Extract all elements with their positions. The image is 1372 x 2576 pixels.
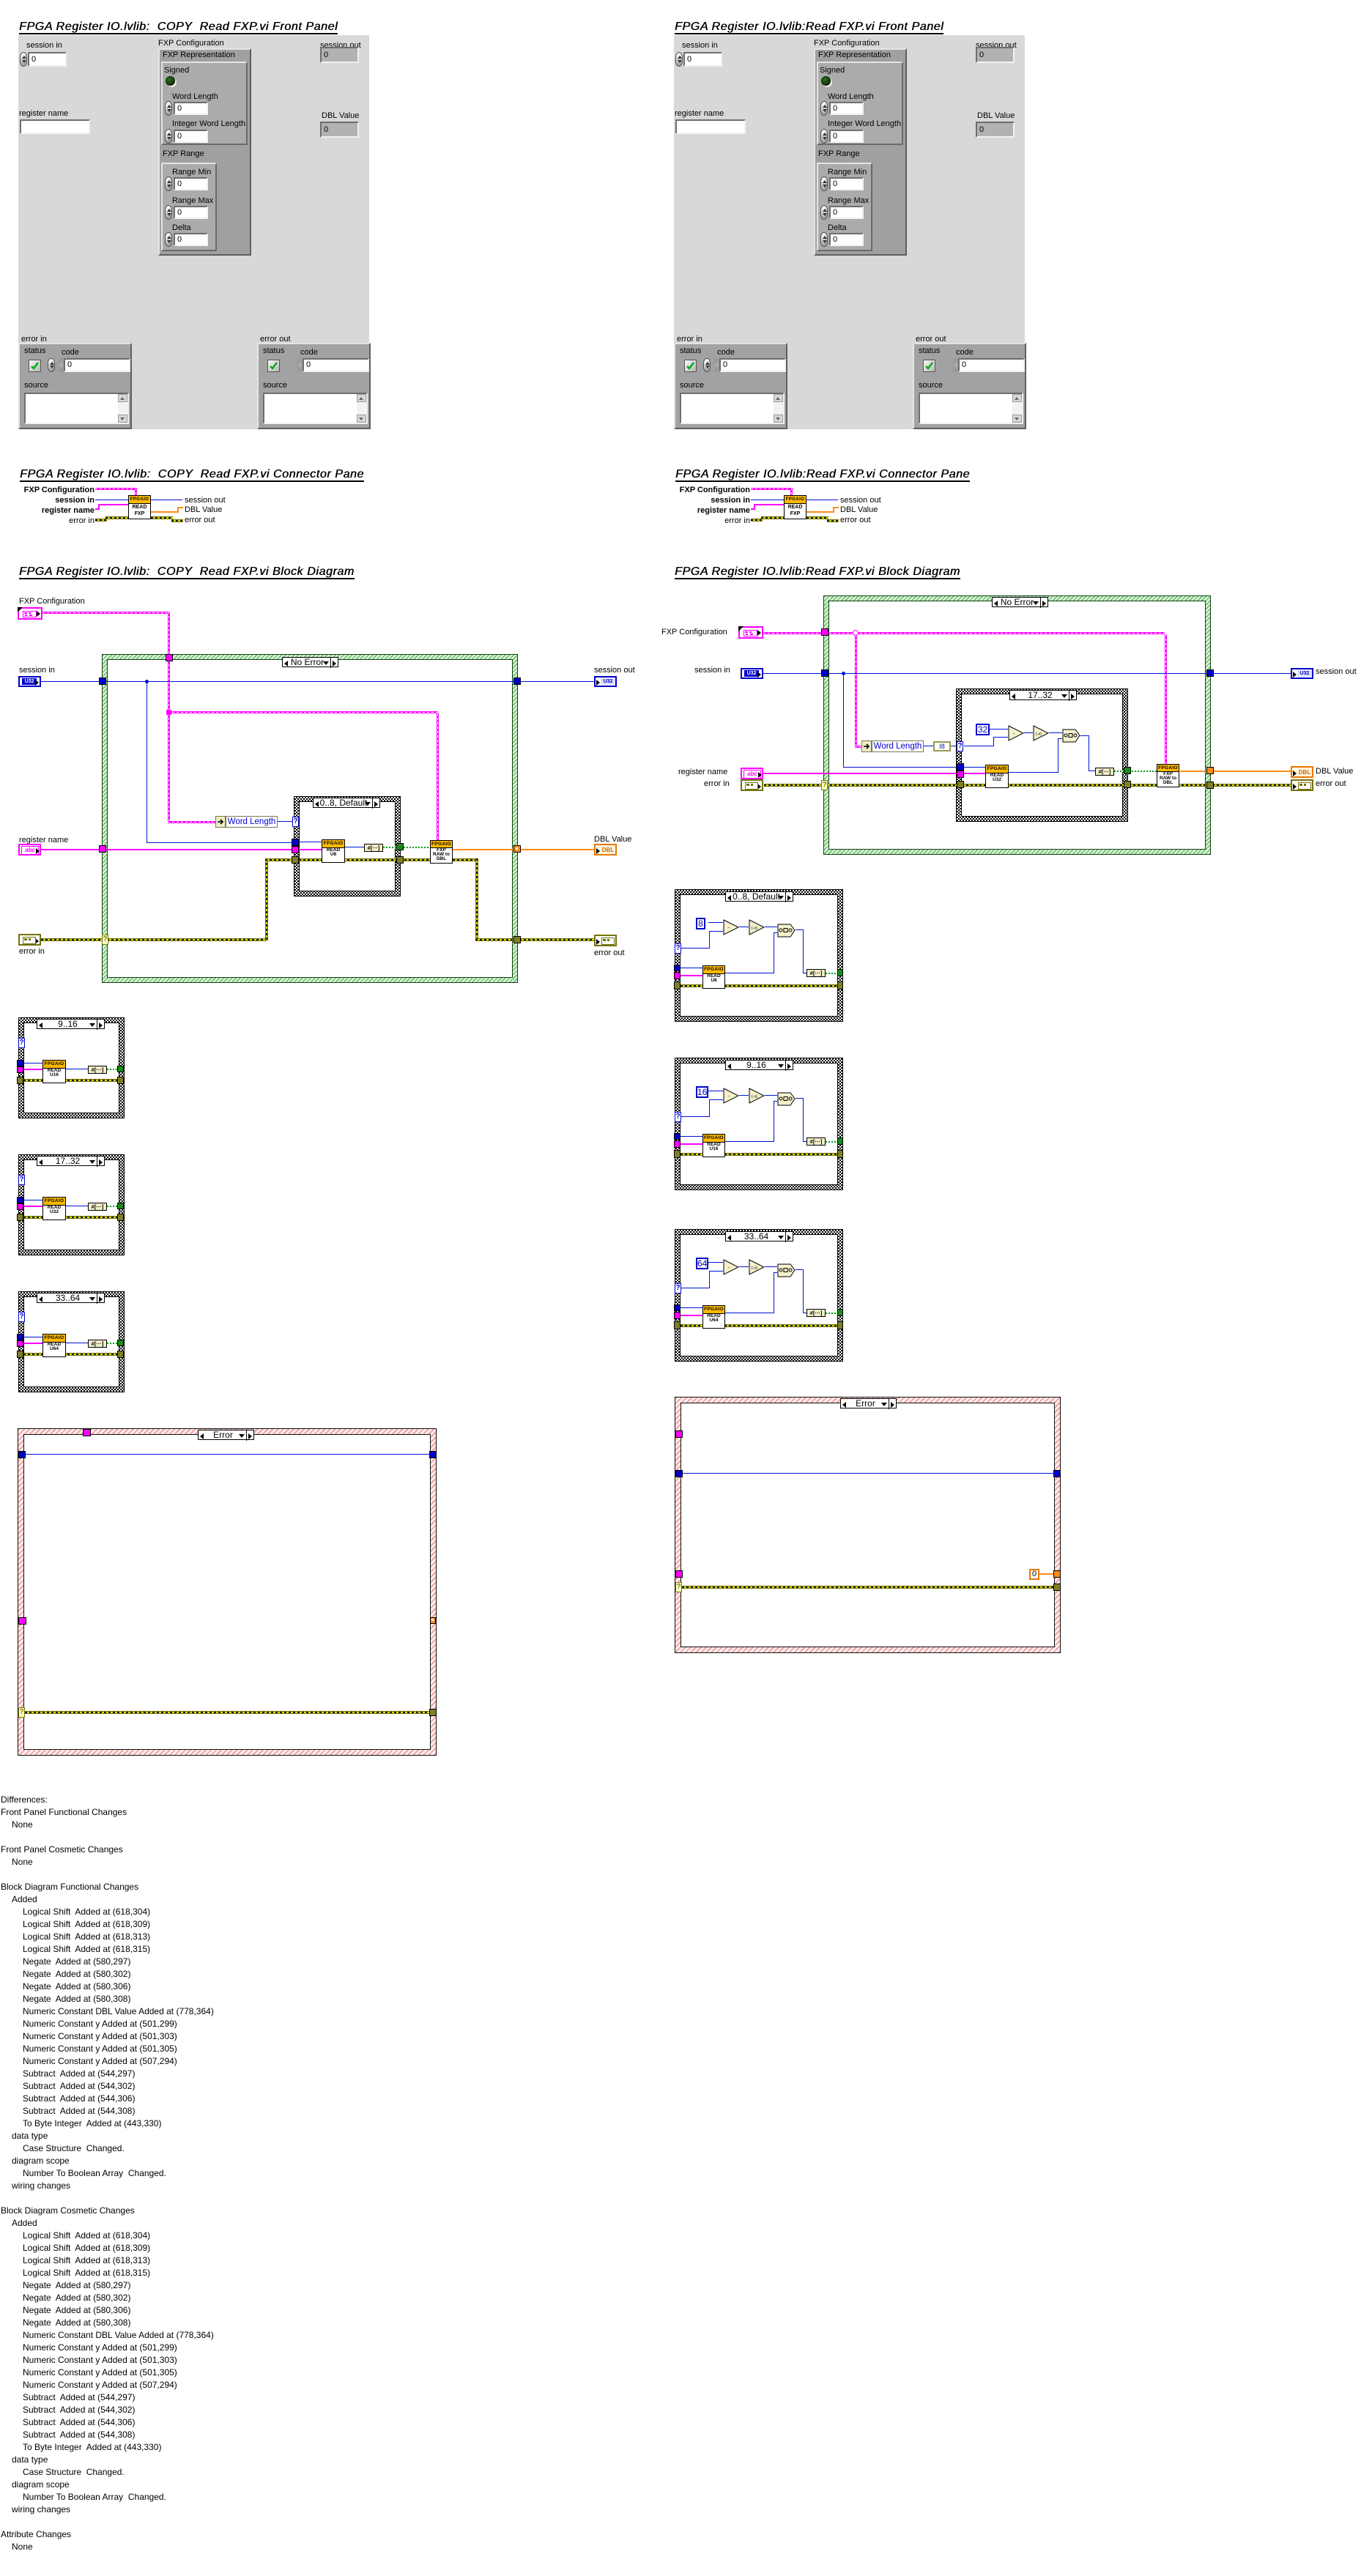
svg-text:−: − xyxy=(727,1266,730,1271)
svg-text:−: − xyxy=(727,927,730,931)
svg-text:−: − xyxy=(727,1095,730,1099)
svg-text:(-x): (-x) xyxy=(1036,732,1042,737)
svg-text:(-x): (-x) xyxy=(752,1095,757,1099)
svg-text:(-x): (-x) xyxy=(752,927,757,931)
svg-text:−: − xyxy=(1012,732,1015,737)
svg-text:(-x): (-x) xyxy=(752,1266,757,1271)
